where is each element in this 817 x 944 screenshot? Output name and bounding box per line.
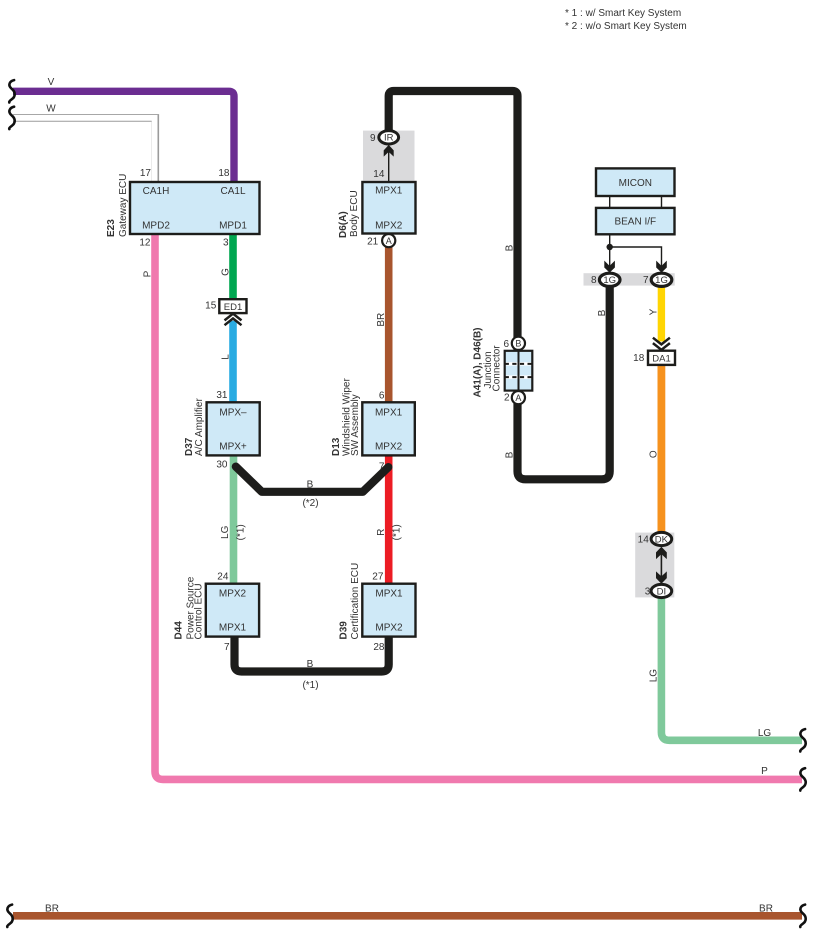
ECU D37 A/C Amplifier box: [207, 402, 260, 455]
svg-text:7: 7: [379, 461, 385, 472]
svg-text:MPX1: MPX1: [375, 185, 403, 196]
svg-text:30: 30: [216, 460, 228, 471]
break symbol LG wire right: [800, 729, 806, 751]
grey box around DK/DI connectors: [635, 533, 674, 598]
junction connector A41(A) D46(B) grid box: [505, 351, 533, 391]
svg-text:G: G: [220, 268, 231, 276]
wire Y (yellow) from 1G pin 7 to DA1 chevrons: [658, 284, 665, 342]
junction dot: [607, 244, 613, 250]
svg-text:6: 6: [503, 339, 509, 350]
ECU D13 Windshield Wiper SW Assembly box: [362, 402, 415, 455]
svg-text:L: L: [220, 354, 231, 360]
wire BR (brown) horizontal at page bottom: [13, 912, 802, 920]
break symbol P wire right: [800, 768, 806, 790]
svg-text:Certification ECU: Certification ECU: [350, 563, 361, 640]
arrow (down) into 1G pin 8: [604, 261, 615, 273]
connector IR on D6(A), pin 9: [379, 131, 399, 144]
wire O (orange) from DA1 to DK connector: [658, 364, 666, 535]
svg-text:Y: Y: [648, 308, 659, 315]
svg-text:BR: BR: [45, 904, 59, 915]
svg-text:IR: IR: [384, 133, 394, 144]
ECU D39 Certification ECU box: [362, 584, 415, 637]
svg-text:A: A: [386, 236, 392, 246]
wire B (black) from IR up over and down through junction connector, around to 1G pin 8: [389, 91, 610, 479]
svg-text:MPX+: MPX+: [219, 442, 247, 453]
svg-text:17: 17: [140, 168, 152, 179]
svg-text:(*2): (*2): [302, 498, 318, 509]
svg-text:* 2 : w/o Smart Key System: * 2 : w/o Smart Key System: [565, 21, 687, 32]
svg-text:CA1L: CA1L: [220, 186, 245, 197]
svg-text:27: 27: [372, 572, 384, 583]
svg-text:12: 12: [139, 238, 151, 249]
svg-text:DK: DK: [655, 534, 669, 545]
svg-text:D44: D44: [174, 621, 185, 640]
svg-text:28: 28: [373, 642, 385, 653]
svg-text:CA1H: CA1H: [143, 186, 170, 197]
svg-text:V: V: [48, 77, 55, 88]
BEAN I/F box: [596, 208, 675, 234]
wire V (violet) from left break to E23 pin 18 CA1L: [13, 91, 234, 183]
svg-text:31: 31: [216, 390, 228, 401]
svg-text:7: 7: [643, 275, 649, 286]
connector DK pin 14: [651, 532, 672, 545]
svg-text:LG: LG: [648, 669, 659, 683]
svg-text:15: 15: [205, 300, 217, 311]
svg-text:MPD1: MPD1: [219, 220, 247, 231]
svg-text:3: 3: [223, 238, 229, 249]
ECU D44 Power Source Control ECU box: [206, 584, 259, 637]
svg-text:(*1): (*1): [302, 680, 318, 691]
svg-text:8: 8: [591, 275, 597, 286]
svg-text:18: 18: [633, 353, 645, 364]
svg-text:MICON: MICON: [619, 178, 652, 189]
ECU D6(A) Body ECU box: [362, 182, 415, 234]
wire BR (brown) from connector A of D6(A) to D13 pin 6 MPX1: [385, 245, 393, 404]
svg-text:P: P: [761, 766, 768, 777]
svg-text:18: 18: [218, 168, 230, 179]
wire LG (light green) from D37 pin 30 MPX+ to D44 pin 24 MPX2: [230, 455, 238, 586]
connector A of junction connector, pin 2: [512, 391, 525, 404]
wire P (pink) from E23 pin 12 MPD2 down and right to break: [155, 233, 802, 779]
svg-text:9: 9: [370, 133, 376, 144]
svg-text:MPX1: MPX1: [219, 622, 247, 633]
svg-text:A41(A), D46(B): A41(A), D46(B): [473, 327, 484, 397]
double chevron above DA1: [653, 338, 670, 350]
svg-text:1G: 1G: [603, 275, 616, 286]
wire R (red) from D13 pin 7 MPX2 to D39 pin 27 MPX1: [385, 455, 393, 586]
wire L (blue) from ED1 chevrons to D37 pin 31 MPX-: [229, 321, 237, 404]
svg-text:D6(A): D6(A): [338, 211, 349, 238]
svg-text:E23: E23: [106, 219, 117, 237]
wire B (*2) (black) jumper from D37 pin 30 to D13 pin 7: [236, 467, 389, 492]
grey shield box above D6(A) Body ECU: [363, 131, 415, 181]
svg-text:7: 7: [224, 642, 230, 653]
thin line between DK and DI arrows: [660, 552, 662, 578]
svg-text:3: 3: [645, 587, 651, 598]
svg-text:BR: BR: [759, 904, 773, 915]
svg-text:B: B: [307, 480, 314, 491]
wire G (green) from E23 pin 3 MPD1 to connector ED1: [229, 233, 237, 300]
svg-text:BR: BR: [376, 313, 387, 327]
svg-text:A: A: [515, 393, 521, 403]
connector DI pin 3: [651, 584, 672, 597]
svg-text:O: O: [648, 450, 659, 458]
svg-text:21: 21: [367, 236, 379, 247]
double chevron below ED1: [225, 314, 242, 326]
svg-text:14: 14: [373, 169, 385, 180]
wire B (*1) (black) jumper from D44 pin 7 to D39 pin 28: [235, 636, 389, 672]
svg-text:MPX1: MPX1: [375, 589, 403, 600]
connector 1G pin 7: [651, 273, 672, 286]
ECU E23 Gateway ECU box: [130, 182, 260, 234]
svg-text:MPX2: MPX2: [375, 220, 403, 231]
svg-text:LG: LG: [220, 525, 231, 539]
arrow (down) into 1G pin 7: [656, 261, 667, 273]
svg-text:Control ECU: Control ECU: [194, 583, 205, 639]
svg-text:MPX1: MPX1: [375, 407, 403, 418]
wire W (white, grey outline) from left break to E23 pin 17 CA1H: [13, 118, 155, 183]
break symbol V wire left: [9, 80, 15, 102]
thin line from internal arrow to D6(A) pin 14: [388, 150, 390, 182]
connector 1G pin 8: [599, 273, 620, 286]
svg-text:B: B: [307, 659, 314, 670]
svg-text:B: B: [515, 339, 521, 349]
svg-text:24: 24: [217, 572, 229, 583]
svg-text:D39: D39: [338, 621, 349, 640]
wire LG (light green) from DI connector down and right to break: [661, 595, 802, 740]
svg-text:MPD2: MPD2: [142, 220, 170, 231]
svg-text:(*1): (*1): [235, 524, 246, 540]
svg-text:DA1: DA1: [652, 353, 670, 364]
svg-text:MPX2: MPX2: [375, 442, 403, 453]
svg-text:MPX2: MPX2: [219, 589, 247, 600]
break symbol BR wire right: [800, 905, 806, 927]
svg-text:6: 6: [379, 391, 385, 402]
connector B of junction connector, pin 6: [512, 337, 525, 350]
connector A below D6(A), pin 21: [382, 234, 395, 247]
svg-text:MPX2: MPX2: [375, 622, 403, 633]
svg-text:A/C Amplifier: A/C Amplifier: [194, 398, 205, 456]
thin lines joining MICON and BEAN I/F: [610, 195, 662, 209]
grey band behind 1G connectors: [584, 273, 675, 285]
svg-text:ED1: ED1: [224, 302, 242, 313]
svg-text:Connector: Connector: [492, 345, 503, 392]
svg-text:W: W: [46, 104, 56, 115]
svg-text:Body ECU: Body ECU: [349, 190, 360, 237]
svg-text:* 1 : w/ Smart Key System: * 1 : w/ Smart Key System: [565, 8, 681, 19]
connector DA1, pin 18: [648, 351, 675, 365]
break symbol BR wire left: [7, 905, 13, 927]
break symbol W wire left: [9, 107, 15, 129]
svg-text:2: 2: [504, 393, 510, 404]
arrow (down) into DI connector: [656, 571, 667, 583]
svg-text:B: B: [597, 309, 608, 316]
svg-text:DI: DI: [657, 586, 667, 597]
svg-text:SW Assembly: SW Assembly: [350, 394, 361, 456]
svg-text:(*1): (*1): [392, 524, 403, 540]
svg-text:R: R: [376, 529, 387, 536]
arrow (up) into IR connector: [384, 145, 394, 157]
svg-text:B: B: [505, 451, 516, 458]
connector ED1, pin 15: [219, 299, 246, 313]
svg-text:B: B: [505, 244, 516, 251]
svg-text:MPX–: MPX–: [219, 407, 247, 418]
svg-text:1G: 1G: [655, 275, 668, 286]
svg-text:Gateway ECU: Gateway ECU: [118, 174, 129, 237]
svg-text:BEAN I/F: BEAN I/F: [614, 217, 656, 228]
svg-text:P: P: [142, 270, 153, 277]
svg-text:LG: LG: [758, 728, 772, 739]
arrow (up) into DK connector: [656, 547, 667, 559]
svg-text:14: 14: [638, 535, 650, 546]
MICON box: [596, 168, 675, 196]
thin line from BEAN I/F down to branch dot and arrows into 1G connectors: [610, 233, 662, 268]
